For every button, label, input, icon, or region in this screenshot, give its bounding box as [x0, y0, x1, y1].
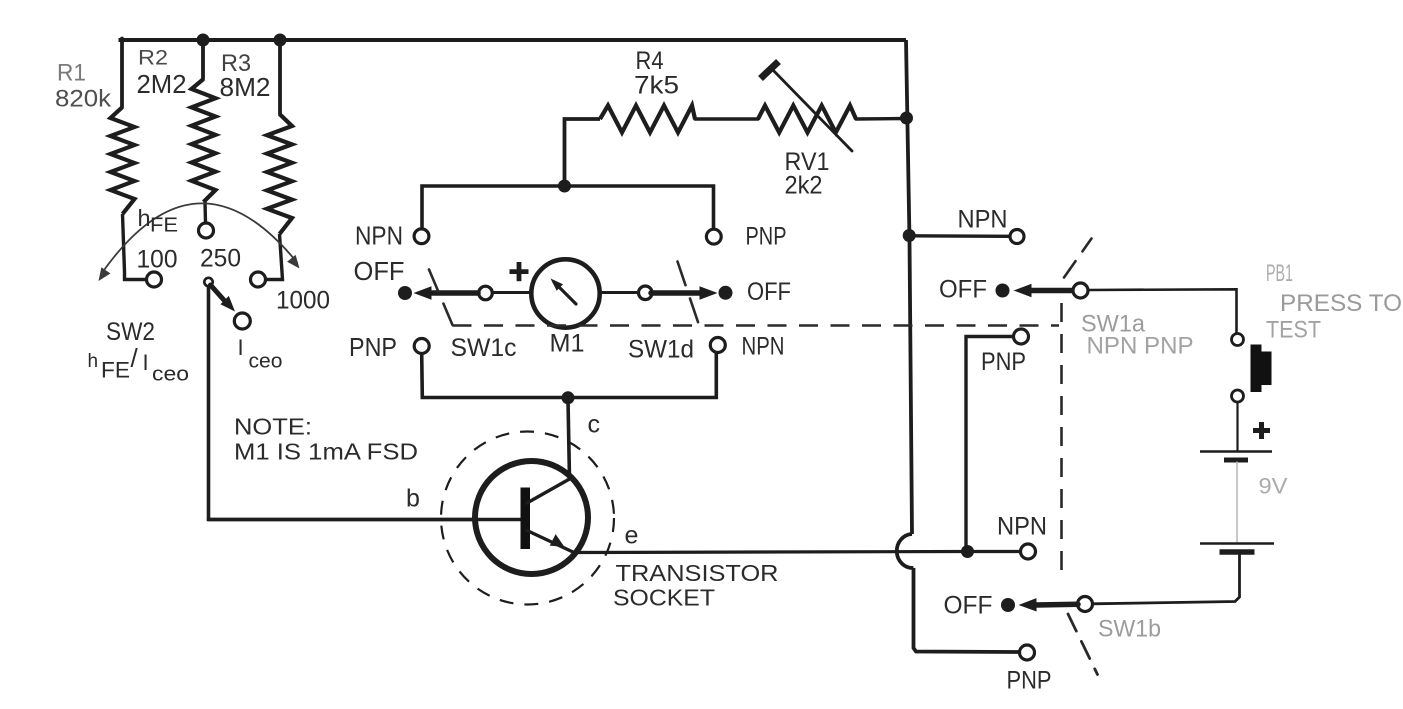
svg-text:820k: 820k: [55, 86, 112, 113]
svg-text:NPN: NPN: [997, 513, 1047, 541]
svg-text:PNP: PNP: [349, 332, 397, 362]
svg-text:PB1: PB1: [1266, 260, 1293, 287]
svg-text:I: I: [143, 350, 149, 375]
svg-text:NOTE:: NOTE:: [234, 414, 312, 440]
svg-text:100: 100: [137, 246, 178, 274]
svg-text:PNP: PNP: [1007, 667, 1052, 695]
svg-text:e: e: [625, 522, 639, 550]
svg-text:SW2: SW2: [106, 318, 155, 346]
svg-text:7k5: 7k5: [634, 72, 679, 100]
svg-text:/: /: [131, 343, 139, 373]
svg-text:b: b: [406, 485, 420, 513]
svg-text:h: h: [138, 205, 151, 231]
svg-text:OFF: OFF: [944, 592, 993, 620]
svg-text:OFF: OFF: [939, 276, 987, 304]
svg-text:9V: 9V: [1259, 474, 1288, 499]
svg-text:NPN: NPN: [355, 221, 403, 251]
svg-text:PNP: PNP: [746, 223, 787, 251]
svg-text:R1: R1: [57, 60, 86, 87]
svg-text:OFF: OFF: [354, 256, 405, 286]
svg-text:8M2: 8M2: [220, 72, 271, 102]
svg-text:h: h: [88, 351, 99, 372]
svg-text:NPN: NPN: [742, 333, 785, 361]
svg-text:SOCKET: SOCKET: [613, 585, 715, 611]
svg-text:FE: FE: [101, 358, 130, 383]
svg-text:SW1c: SW1c: [451, 334, 517, 362]
svg-text:M1: M1: [550, 330, 585, 358]
svg-text:SW1b: SW1b: [1098, 616, 1161, 643]
svg-text:I: I: [238, 335, 244, 360]
svg-text:NPN PNP: NPN PNP: [1087, 333, 1194, 360]
svg-text:SW1d: SW1d: [628, 336, 694, 364]
svg-text:PRESS TO: PRESS TO: [1280, 290, 1402, 317]
svg-text:2M2: 2M2: [137, 71, 187, 99]
svg-text:FE: FE: [150, 215, 178, 237]
svg-text:R2: R2: [138, 47, 168, 70]
svg-text:250: 250: [200, 245, 241, 273]
svg-text:ceo: ceo: [249, 351, 283, 373]
svg-text:M1 IS 1mA FSD: M1 IS 1mA FSD: [234, 439, 418, 465]
svg-text:TRANSISTOR: TRANSISTOR: [616, 560, 779, 586]
svg-text:PNP: PNP: [981, 348, 1026, 376]
svg-text:TEST: TEST: [1266, 317, 1321, 344]
svg-text:2k2: 2k2: [785, 172, 823, 200]
svg-text:ceo: ceo: [152, 364, 189, 386]
svg-text:1000: 1000: [276, 287, 330, 315]
svg-text:OFF: OFF: [747, 278, 791, 306]
svg-text:NPN: NPN: [958, 206, 1008, 234]
svg-text:c: c: [588, 411, 601, 439]
